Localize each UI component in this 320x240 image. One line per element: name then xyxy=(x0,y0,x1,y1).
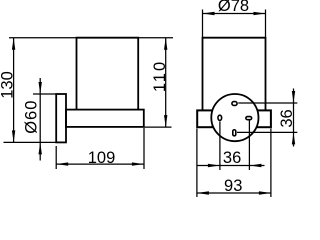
svg-text:36: 36 xyxy=(278,109,296,127)
svg-text:110: 110 xyxy=(151,60,169,92)
svg-text:Ø60: Ø60 xyxy=(23,100,41,134)
svg-text:Ø78: Ø78 xyxy=(218,0,249,15)
svg-text:130: 130 xyxy=(0,71,17,99)
svg-text:36: 36 xyxy=(223,149,241,167)
svg-text:93: 93 xyxy=(224,177,242,195)
svg-text:109: 109 xyxy=(88,149,116,167)
